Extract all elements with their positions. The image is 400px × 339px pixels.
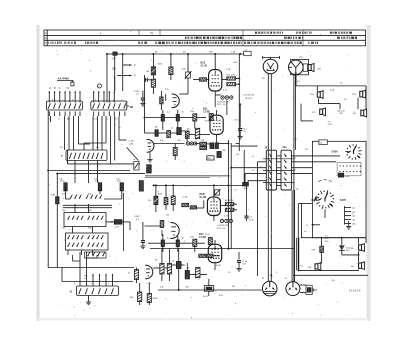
wire midrow <box>145 117 207 119</box>
svg-text:B12 100k: B12 100k <box>227 75 235 77</box>
svg-text:T: T <box>61 154 63 158</box>
component D21 <box>176 262 181 269</box>
capacitor C27 <box>246 213 248 216</box>
svg-text:7B0: 7B0 <box>222 150 226 152</box>
capacitor Cg2 <box>142 222 144 240</box>
tube V3 <box>210 115 223 134</box>
labels below strip S2 <box>93 119 119 121</box>
title block left col marks <box>45 33 47 43</box>
svg-text:(2): (2) <box>353 208 356 210</box>
labels texture right <box>252 57 348 282</box>
svg-text:4-7k: 4-7k <box>223 90 228 92</box>
wire v123 <box>123 193 125 251</box>
wire M2 box <box>300 285 306 293</box>
transistor TR1 <box>289 60 304 75</box>
wire v228 <box>227 140 229 249</box>
svg-text:S476: S476 <box>340 198 347 202</box>
ground C26 <box>236 268 241 270</box>
dial drum DR1 <box>263 59 278 74</box>
svg-text:C-2B: C-2B <box>129 141 135 143</box>
svg-text:d: d <box>72 100 73 102</box>
svg-text:M: M <box>262 278 264 280</box>
wires into S3 left <box>80 252 87 286</box>
svg-text:61B: 61B <box>312 250 316 252</box>
resistor R22 <box>195 128 199 138</box>
page edge right <box>367 25 371 321</box>
svg-text:S4b: S4b <box>88 194 92 196</box>
svg-text:0-1: 0-1 <box>304 231 308 233</box>
capacitor Cg1 <box>142 91 144 98</box>
svg-text:2E: 2E <box>265 147 268 150</box>
svg-text:1-1B: 1-1B <box>226 69 231 71</box>
svg-text:1M: 1M <box>148 200 151 202</box>
wire v292 pair <box>292 190 295 281</box>
wire v239 <box>238 54 240 151</box>
junction dots lc <box>155 185 229 291</box>
wire dial verticals top <box>268 74 271 190</box>
svg-text:22a: 22a <box>282 146 287 149</box>
label 5-TBr <box>352 94 356 96</box>
wire right v3 <box>359 238 367 262</box>
fuse B-1.0 <box>204 286 213 292</box>
terminal block TB1 <box>337 163 361 176</box>
svg-text:2-0: 2-0 <box>294 139 298 141</box>
terminal column TC1 <box>345 206 356 226</box>
connector strip S1 <box>46 101 82 110</box>
wire lc V4 <box>213 216 215 222</box>
svg-text:1-0B: 1-0B <box>183 197 188 199</box>
resistor R61 <box>320 246 324 252</box>
label 174 <box>112 57 117 60</box>
capacitor E1 <box>64 183 67 191</box>
svg-text:OST: OST <box>339 113 344 115</box>
wire lc V6 <box>214 240 216 270</box>
label B-1.05 <box>244 129 248 134</box>
svg-text:g: g <box>113 100 114 102</box>
box 41S6 <box>338 173 343 177</box>
label 5-1B <box>308 267 312 269</box>
title block row1 text <box>100 31 352 35</box>
box TR1 <box>291 60 309 75</box>
svg-text:F: F <box>134 63 136 67</box>
svg-text:DP1-DP: DP1-DP <box>245 98 253 100</box>
svg-text:mA: mA <box>84 277 88 280</box>
resistor R13 <box>169 67 173 75</box>
label 7-6 <box>328 122 334 127</box>
box 6-LC <box>319 140 327 145</box>
wire bus y176 <box>145 175 230 177</box>
box control unit <box>312 141 366 237</box>
label V3 <box>203 107 210 113</box>
label 5-TB <box>310 94 314 96</box>
stubs below strip S1 <box>49 112 80 117</box>
switch contacts row C group 4 <box>88 243 104 247</box>
wire v244 <box>244 150 246 213</box>
speaker SP1 <box>308 65 311 71</box>
svg-text:047: 047 <box>243 264 247 266</box>
component D11 <box>177 128 181 135</box>
resistor R17 <box>160 97 163 104</box>
tube V7 half <box>146 265 153 279</box>
jacks J3 <box>220 219 223 222</box>
wire dial T-bar <box>262 56 279 59</box>
svg-text:B1B: B1B <box>158 64 163 66</box>
motor M2 <box>286 282 300 296</box>
label A-TB2 <box>244 187 248 190</box>
wire D21 top <box>178 249 180 262</box>
wire bus y290 <box>158 289 262 291</box>
capacitor C23 <box>161 240 164 247</box>
label 1/2EC b <box>134 216 140 221</box>
wire h163 <box>68 150 140 164</box>
speaker SP3 <box>361 110 364 116</box>
svg-text:1k: 1k <box>172 261 175 263</box>
resistor R20 <box>167 131 171 138</box>
svg-text:B12 100k: B12 100k <box>225 200 233 202</box>
wire uc v163 <box>162 110 164 130</box>
wire V5 <box>145 226 163 236</box>
wire v178 drop <box>178 269 180 291</box>
box D1 <box>303 64 307 71</box>
svg-text:S5b: S5b <box>88 210 92 212</box>
wire lc v161 <box>162 234 164 252</box>
capacitor C24 <box>176 240 179 247</box>
svg-text:C: C <box>59 87 61 90</box>
svg-text:220: 220 <box>166 215 170 217</box>
switch contacts row A group 2 <box>86 195 102 199</box>
wire uc v178 <box>177 110 179 128</box>
svg-text:0-5: 0-5 <box>344 99 348 101</box>
wire R14h <box>193 79 209 81</box>
svg-text:B1B: B1B <box>158 194 163 196</box>
svg-text:7B: 7B <box>296 189 299 191</box>
svg-text:S436: S436 <box>332 150 339 154</box>
label VA-116 <box>338 110 346 116</box>
wire h120 <box>301 104 313 121</box>
svg-text:C1-0B: C1-0B <box>200 197 207 199</box>
svg-text:a1: a1 <box>252 156 255 158</box>
label 1B right of S2 <box>127 105 133 109</box>
wire P1 <box>187 54 189 84</box>
wire h275 <box>293 274 368 276</box>
resistor R31 <box>154 196 158 204</box>
box B-05 <box>207 156 214 160</box>
wire input left <box>145 75 153 98</box>
wire corner <box>298 204 312 272</box>
component B right <box>134 162 139 171</box>
svg-text:1-0B: 1-0B <box>317 69 322 71</box>
svg-text:B-1.0: B-1.0 <box>203 296 209 298</box>
jack plug JP1 <box>311 288 313 293</box>
label 4.7c <box>128 273 131 275</box>
svg-text:VA-1-16: VA-1-16 <box>338 110 346 113</box>
ground C16 <box>238 136 243 138</box>
wire bundle below S2 <box>84 116 127 164</box>
wire V1 top <box>214 54 216 70</box>
svg-text:8 1 8 3 4 8: 8 1 8 3 4 8 <box>349 290 361 293</box>
rotary switch S436 <box>358 153 361 156</box>
svg-text:1-0: 1-0 <box>340 83 344 85</box>
label S476 <box>340 198 347 202</box>
svg-text:B+: B+ <box>106 119 109 121</box>
labels texture left <box>52 100 121 286</box>
jacks J2 <box>186 142 189 145</box>
title block table frame <box>44 30 366 46</box>
wires rows BC <box>68 204 93 255</box>
wire dot v240 <box>240 104 241 121</box>
label 6-BB <box>351 248 354 250</box>
svg-text:4B: 4B <box>332 280 335 282</box>
label C-2B <box>217 102 229 107</box>
svg-text:A: A <box>49 87 51 90</box>
svg-text:M: M <box>67 87 69 90</box>
svg-text:(B): (B) <box>353 224 356 226</box>
resistor R11 <box>151 67 155 75</box>
wire left bus A <box>47 110 49 171</box>
switch contacts row B group 1 <box>68 216 84 220</box>
label 6-BB2 <box>351 266 354 268</box>
capacitor C26 <box>238 252 240 260</box>
tube V6 <box>208 244 221 262</box>
svg-text:250: 250 <box>325 241 329 243</box>
label B-12b <box>225 200 233 202</box>
svg-text:1-0: 1-0 <box>249 217 253 219</box>
wire diagonal <box>127 147 139 160</box>
component A-TB <box>114 220 122 225</box>
connector strip S2 <box>91 101 127 110</box>
resistor R45h <box>206 254 213 257</box>
component near AA4460 <box>71 82 74 86</box>
wire jacks <box>215 91 221 95</box>
tube V1 <box>209 70 222 91</box>
svg-text:5TB: 5TB <box>310 94 314 96</box>
label V4 <box>200 193 207 199</box>
wire top bus y54 <box>123 53 244 55</box>
wire lc v178b <box>177 236 179 252</box>
motor M1 <box>262 281 277 296</box>
svg-text:50: 50 <box>182 238 185 240</box>
label C-1.0 <box>243 261 248 266</box>
label B12 a <box>134 91 140 96</box>
wire R11 up <box>152 54 154 94</box>
svg-text:C1-PB: C1-PB <box>199 237 206 239</box>
capacitor C16 <box>239 121 241 128</box>
svg-text:B1B: B1B <box>200 193 205 196</box>
speaker SP8 <box>359 263 362 268</box>
svg-text:TS2: TS2 <box>299 57 304 59</box>
switch contacts row C group 3 <box>88 235 104 239</box>
svg-text:31: 31 <box>70 291 73 294</box>
svg-text:B12: B12 <box>201 62 206 65</box>
label 16V <box>346 248 352 253</box>
svg-text:c: c <box>62 100 63 102</box>
capacitor C14 <box>176 115 179 122</box>
svg-text:4-0: 4-0 <box>297 81 301 83</box>
resistor R15h <box>227 77 236 80</box>
label V6 <box>199 233 206 239</box>
resistor R44h <box>199 254 206 257</box>
capacitor E2 <box>98 183 101 191</box>
wire V1 to V3 <box>215 95 227 115</box>
svg-text:2-5: 2-5 <box>300 266 304 268</box>
resistor R46 <box>138 292 142 302</box>
arrow F1 <box>123 64 132 66</box>
wire h173 <box>57 173 145 175</box>
labels R46 R47 <box>130 297 158 300</box>
ground symbol S3 <box>86 301 91 303</box>
arrow F2 <box>117 75 132 77</box>
resistor R39 <box>193 239 197 246</box>
box 2.2 on bus <box>244 51 251 55</box>
wire uc v144 <box>144 98 146 133</box>
labels above bus y54 <box>155 52 236 54</box>
capacitor Cin1 <box>145 78 147 82</box>
jacks J1 <box>221 96 224 99</box>
tube V2 half <box>173 94 180 108</box>
resistor R40 <box>208 238 212 245</box>
resistor R24h <box>200 142 207 145</box>
svg-text:6B: 6B <box>351 266 354 268</box>
label 31 <box>70 291 73 294</box>
wire SP4 <box>317 86 318 104</box>
label 2E <box>265 147 268 150</box>
title block row2 text <box>185 37 357 39</box>
svg-text:S6a: S6a <box>62 228 66 230</box>
svg-text:M1: M1 <box>262 78 266 80</box>
svg-text:a: a <box>74 283 76 285</box>
wire v341 <box>341 238 343 255</box>
stubs below strip S2 <box>94 112 125 117</box>
resistor R47 <box>147 294 151 303</box>
trimmer P2 <box>215 190 220 195</box>
svg-text:0-1: 0-1 <box>167 112 171 114</box>
svg-text:C1-06: C1-06 <box>201 66 208 68</box>
svg-text:B07A: B07A <box>153 297 159 300</box>
switch contacts row B group 2 <box>88 216 104 220</box>
svg-text:1-1B: 1-1B <box>231 52 236 54</box>
svg-text:519: 519 <box>312 112 316 114</box>
wire R13 <box>170 54 172 80</box>
wire bus y185 <box>154 184 245 186</box>
wire sw drops <box>75 161 98 184</box>
wire v57 <box>56 174 58 243</box>
wires into S3 arrows <box>92 273 113 286</box>
wire V1 right <box>222 79 240 85</box>
switch contacts row A group 1 <box>70 195 81 199</box>
resistor R38 <box>160 221 164 228</box>
svg-text:220: 220 <box>165 89 169 91</box>
resistor R33 <box>171 196 175 205</box>
resistor R34h <box>182 203 189 206</box>
label B-1.0 <box>203 296 209 298</box>
svg-text:1B: 1B <box>130 105 134 109</box>
svg-text:0-47: 0-47 <box>219 295 224 297</box>
wire lc P2 dn <box>196 200 204 208</box>
wires lower band <box>154 144 228 161</box>
wire gnd right <box>348 221 350 227</box>
speaker SP6 <box>315 264 318 269</box>
svg-text:e: e <box>108 283 110 285</box>
switch ladder bank 2 <box>281 150 291 190</box>
ground Cg2 <box>140 245 145 247</box>
svg-text:1B: 1B <box>305 149 308 151</box>
resistor R16h <box>227 83 236 86</box>
svg-text:1k: 1k <box>171 128 174 130</box>
svg-text:6B: 6B <box>353 113 356 115</box>
wire midrow b <box>148 242 205 244</box>
ladder exits right <box>291 156 340 174</box>
svg-text:5TB: 5TB <box>352 94 356 96</box>
wire v257 <box>258 162 267 276</box>
resistor R25h <box>200 146 207 149</box>
component A-TB2 <box>243 182 249 186</box>
svg-text:p5B: p5B <box>117 180 121 182</box>
speaker SP2 <box>360 91 363 97</box>
svg-text:B: B <box>134 159 136 161</box>
wire h146 center <box>231 145 257 147</box>
wire h270 <box>299 269 359 270</box>
svg-text:S-2: S-2 <box>96 147 100 149</box>
svg-text:F: F <box>134 74 136 78</box>
svg-text:TA: TA <box>150 31 153 35</box>
labels below strip S1 <box>49 118 70 121</box>
svg-text:C1-0B: C1-0B <box>203 111 210 113</box>
svg-text:(4): (4) <box>353 216 356 218</box>
wire uc P1 dn <box>179 84 188 94</box>
svg-text:1M: 1M <box>146 71 149 73</box>
svg-text:p50: p50 <box>95 180 99 182</box>
switch ladder bank 1 <box>266 150 276 190</box>
label V1 <box>201 62 208 68</box>
ground right <box>346 226 351 228</box>
resistor R21 <box>185 131 189 138</box>
svg-text:1-3B: 1-3B <box>129 144 134 146</box>
resistor R35h <box>190 206 196 209</box>
svg-text:DP1 - DP: DP1 - DP <box>217 228 226 230</box>
label 41S6 <box>345 176 351 178</box>
svg-text:c: c <box>91 283 92 285</box>
wire h267 <box>48 243 134 268</box>
label 500mA <box>84 275 88 280</box>
svg-text:1-7: 1-7 <box>234 190 238 192</box>
svg-text:p50a: p50a <box>60 180 65 182</box>
label 5-19 <box>312 112 316 114</box>
speaker SP7 <box>359 245 362 250</box>
svg-text:x: x <box>219 177 220 179</box>
svg-text:0-B: 0-B <box>160 140 164 142</box>
component D22 <box>185 271 189 279</box>
svg-text:50: 50 <box>182 112 185 114</box>
label 7-6 stack <box>325 236 330 243</box>
wire V2b gnd <box>149 152 151 159</box>
switch box T <box>66 150 107 161</box>
svg-text:F+: F+ <box>116 119 119 121</box>
svg-text:D: D <box>58 119 60 121</box>
svg-text:DP1 - DP: DP1 - DP <box>217 104 226 106</box>
svg-text:0-B2: 0-B2 <box>233 62 238 64</box>
wires above strip S2 <box>93 91 115 103</box>
svg-text:S5a: S5a <box>62 210 66 212</box>
resistor R36h <box>225 203 234 206</box>
svg-text:1-0B: 1-0B <box>181 69 186 71</box>
label L-26 <box>147 282 152 284</box>
resistor R19 <box>209 114 213 121</box>
wire V2 <box>161 91 165 110</box>
svg-text:51B: 51B <box>308 267 312 269</box>
wires above strip S1 <box>49 91 81 103</box>
resistor R18 <box>193 114 197 121</box>
svg-text:25B: 25B <box>190 236 194 238</box>
